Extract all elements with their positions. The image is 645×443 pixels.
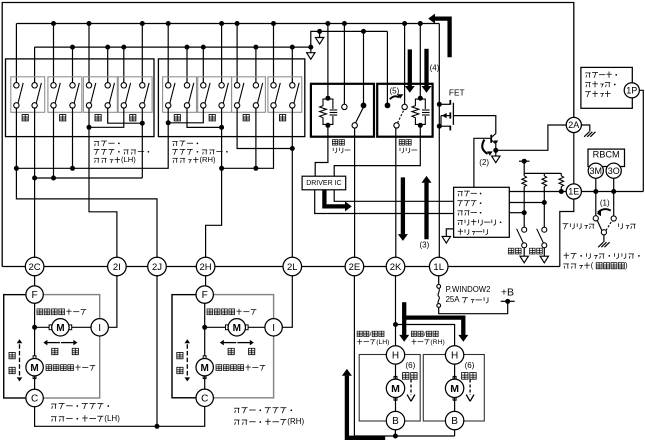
- wire: relay feed to relay1 NO contact: [363, 31, 365, 105]
- svg-text:(LH): (LH): [104, 414, 120, 423]
- svg-text:M: M: [233, 323, 241, 334]
- label: up-down adjust motor: [216, 365, 265, 371]
- svg-text:2K: 2K: [390, 262, 402, 273]
- svg-text:(4): (4): [430, 64, 440, 73]
- svg-text:2L: 2L: [287, 262, 298, 273]
- junction dots on bus2: [70, 45, 75, 50]
- wire: main feed loop from row left end up across top to 2A: [2, 3, 574, 267]
- connector 2H: [196, 257, 215, 276]
- dashed arrow: return direction: [410, 380, 412, 396]
- wires: bus1 drops to switch contacts: [15, 24, 17, 83]
- label: return relay: [399, 140, 411, 146]
- svg-text:C: C: [31, 394, 38, 405]
- power outer mirror motor (LH) box: [4, 295, 100, 398]
- motor M (left-right adjust): [49, 325, 52, 330]
- pull-up rail tick: [519, 160, 530, 162]
- wire: RH down-right contact to connector 2H: [206, 108, 222, 257]
- svg-text:(LH): (LH): [376, 339, 389, 346]
- connector H: [386, 346, 404, 364]
- connector C: [26, 389, 43, 406]
- connector 1P: [624, 83, 639, 98]
- wire: LH left-right contact jog to right-right: [108, 108, 143, 123]
- wire: motor box left path: [4, 295, 26, 398]
- return relay coil: [412, 99, 420, 124]
- label: retract relay: [332, 140, 344, 146]
- wire: 2H to F (RH): [205, 276, 207, 286]
- wire: LH up-left contact to line C to connector 2J: [16, 108, 157, 257]
- +B terminal: [501, 300, 515, 302]
- wire: line A right segment: [222, 108, 274, 168]
- svg-text:(3): (3): [420, 241, 430, 250]
- wire: DRIVER IC output to module (upper): [334, 190, 453, 202]
- label: left-right adjust motor: [207, 309, 256, 315]
- retract relay box: [311, 84, 374, 137]
- wire: connector row bus: [2, 266, 560, 268]
- wire: relay feed to relay2 NO contact: [386, 31, 388, 105]
- wire: LH down-right contact to line A: [72, 108, 74, 168]
- switch unit 上: [163, 77, 197, 113]
- svg-text:2H: 2H: [200, 262, 212, 273]
- resistor R1: [522, 176, 527, 187]
- svg-text:C: C: [201, 393, 208, 404]
- module branch marker lower left: [446, 229, 453, 237]
- label: up-down adjust motor: [46, 365, 95, 371]
- wire: LH down-left contact to line B: [53, 108, 55, 178]
- power outer mirror switch (RH) box: [158, 59, 304, 137]
- svg-text:(6): (6): [406, 361, 416, 370]
- svg-text:H: H: [392, 351, 399, 362]
- wire: DRIVER IC output to module (lower): [315, 190, 454, 214]
- label: up / down: [9, 352, 15, 358]
- wire: motor box left path: [172, 295, 196, 398]
- svg-text:B: B: [392, 416, 399, 427]
- ground (lock switch): [598, 242, 603, 247]
- svg-text:+B: +B: [501, 287, 514, 299]
- wire: rail to resistors: [523, 161, 525, 176]
- svg-text:1E: 1E: [568, 187, 579, 197]
- wire: F to junction to vertical motor: [204, 303, 206, 358]
- wire: junction to LR motor and I: [35, 326, 100, 328]
- curved arrow (2): [482, 140, 487, 154]
- wire: R2 to return switch: [543, 187, 545, 228]
- wire: relay2 armature to connector 2K: [395, 128, 397, 257]
- fuse P.WINDOW2 25A: [437, 285, 441, 289]
- wire: LH left-left contact to line D to connector 2I: [89, 108, 117, 257]
- wire: RH right-right contact down to connector 2L: [291, 108, 293, 257]
- svg-text:): ): [625, 261, 628, 270]
- connector 2L: [283, 257, 302, 276]
- arrows: up-down: [186, 344, 188, 376]
- wire: 1E to row right end: [560, 199, 574, 266]
- svg-text:(RH): (RH): [287, 417, 304, 426]
- thick arrow: retract current down (left): [408, 49, 412, 86]
- switch unit 右: [118, 77, 152, 113]
- svg-text:2J: 2J: [152, 262, 162, 273]
- svg-text:H: H: [451, 351, 458, 362]
- wire: transistor base from module: [474, 138, 491, 187]
- wire: bus 1 (upper supply bus): [16, 23, 439, 25]
- connector B: [386, 411, 404, 429]
- svg-text:(RH): (RH): [430, 339, 444, 346]
- connector 3M: [588, 163, 603, 178]
- wire: module output to 1E: [509, 191, 566, 193]
- return switch: [542, 227, 547, 232]
- connector 2A: [566, 117, 581, 132]
- retract relay coil: [320, 99, 328, 124]
- svg-text:2A: 2A: [568, 120, 579, 130]
- connector 2E: [345, 257, 364, 276]
- switch unit 左: [232, 77, 266, 113]
- curved arrow (5): [390, 96, 399, 99]
- wire: 2K down to retract motors: [395, 276, 397, 346]
- svg-text:(1): (1): [600, 198, 610, 207]
- wire: 2J down to motor return bus: [156, 276, 158, 427]
- node: bus2 end junction with branch marker: [308, 45, 313, 50]
- wire: 1E line to RBCM and 1P: [581, 191, 643, 193]
- thick arrow: bottom return flow up: [347, 376, 385, 438]
- thick arrow: up from row: [424, 183, 428, 240]
- label: retract/return motor (LH): [357, 331, 384, 338]
- RBCM box: [588, 149, 625, 166]
- thick arrow (3): down toward row: [401, 177, 405, 234]
- arrows: left-right: [222, 342, 236, 344]
- power outer mirror motor (RH) box: [172, 295, 274, 398]
- wire: bus 2 (second supply bus): [35, 46, 311, 48]
- label: power outer mirror motor (LH): [51, 404, 109, 410]
- start stop unit box: [581, 67, 632, 108]
- svg-text:B: B: [451, 416, 458, 427]
- svg-text:(RH): (RH): [200, 155, 216, 164]
- motor M (left-right adjust): [226, 325, 229, 330]
- svg-text:/: /: [424, 331, 426, 338]
- wire: bus1 to relay2 NC contact: [404, 24, 406, 105]
- node: relay feed line junction with branch marker: [317, 29, 322, 34]
- svg-text:M: M: [391, 383, 400, 395]
- svg-text:(: (: [591, 261, 594, 270]
- wire: relay2 coil to DRIVER IC: [334, 125, 420, 176]
- wire: 2L to I (RH): [282, 276, 292, 328]
- svg-text:RBCM: RBCM: [593, 149, 620, 159]
- connector F: [196, 286, 213, 303]
- connector B: [445, 411, 463, 429]
- arrows: up-down: [19, 344, 21, 376]
- label: power outer mirror motor (RH): [234, 408, 292, 414]
- connector 3O: [606, 163, 621, 178]
- wire: RH up-left branch to down-left contact: [168, 108, 203, 123]
- label: power outer mirror switch (RH): [172, 141, 198, 146]
- wire: lock switch to ground: [603, 235, 605, 242]
- return relay box: [377, 84, 432, 137]
- wire: junction to LR motor and I: [205, 326, 274, 328]
- FET transistor: [439, 103, 450, 105]
- wire: 2E down to motor B bus: [354, 276, 454, 436]
- svg-text:M: M: [201, 363, 209, 374]
- wire: 2C to F (LH): [34, 276, 36, 286]
- svg-text:I: I: [272, 323, 275, 334]
- svg-text:3M: 3M: [590, 166, 603, 176]
- label: up / down: [177, 352, 183, 358]
- resistor R3: [559, 176, 564, 187]
- wire: LH left-left branch to right-left contact: [89, 108, 124, 127]
- svg-text:FET: FET: [449, 88, 465, 98]
- svg-text:1L: 1L: [433, 262, 444, 273]
- connector C: [196, 389, 213, 406]
- svg-text:M: M: [30, 363, 38, 374]
- wire: RH up-right jog to down-right: [187, 108, 222, 127]
- connector F: [26, 286, 43, 303]
- svg-text:2I: 2I: [113, 262, 121, 273]
- retract/return motor (RH) box: [423, 355, 484, 422]
- wire: 2A to 1E: [573, 133, 575, 184]
- wire: UD motor to C: [34, 376, 36, 389]
- wire: R3 to 1E line: [560, 187, 562, 192]
- motor M (up-down adjust): [203, 356, 206, 359]
- wires: bus2 drops to switch contacts: [34, 47, 36, 83]
- connector I: [265, 319, 282, 336]
- wire: bus1 to relay2 coil: [419, 24, 421, 99]
- wire: branch to RH retract motor: [396, 325, 455, 346]
- switch unit 下: [48, 77, 82, 113]
- power outer mirror switch (LH) box: [6, 59, 155, 137]
- wire: relay1 coil to DRIVER IC: [315, 125, 328, 176]
- wire: 1L to fuse: [438, 276, 440, 285]
- wire: relay1 armature to connector 2E: [354, 128, 356, 257]
- wire: 2I to I (LH): [108, 276, 117, 328]
- switch unit 右: [268, 77, 302, 113]
- branch marker below transistor (2): [492, 156, 500, 163]
- svg-text:(6): (6): [465, 361, 475, 370]
- svg-text:P.WINDOW2: P.WINDOW2: [446, 285, 491, 294]
- power outer mirror control module box: [454, 187, 510, 237]
- wire: line A: [16, 108, 168, 168]
- wire: B(LH) to bus: [394, 430, 396, 436]
- wire: bus1 to relay1 coil: [327, 24, 329, 99]
- svg-text:2C: 2C: [29, 262, 41, 273]
- DRIVER IC box: [302, 176, 346, 190]
- thick arrow: feedback current path top right: [434, 19, 450, 58]
- retract switch: [522, 227, 527, 232]
- wire: module output (retract): [509, 212, 524, 214]
- label: retract/return motor (RH): [411, 331, 438, 338]
- svg-text:/: /: [370, 331, 372, 338]
- return relay contact (5): [398, 110, 405, 123]
- door lock link switch (1): [593, 216, 598, 221]
- transistor (2): [490, 135, 492, 143]
- wire: 1P to 1E line: [639, 90, 643, 191]
- arrows: left-right: [46, 342, 60, 344]
- wire: UD motor to C: [204, 376, 206, 389]
- svg-text:3O: 3O: [608, 166, 620, 176]
- motor M (retract): [453, 376, 456, 379]
- wire: transistor emitter to 2A: [496, 125, 566, 150]
- wire: line B: [35, 177, 143, 179]
- ground (2A): [584, 132, 589, 137]
- svg-text:1P: 1P: [626, 86, 637, 96]
- thick arrow: retract motor drive (LH+RH): [402, 302, 406, 335]
- wire: LH up-right contact down to connector 2C: [34, 108, 36, 257]
- svg-text:25A: 25A: [446, 295, 461, 304]
- wire: F to junction to vertical motor: [34, 303, 36, 358]
- switch unit labels: [22, 115, 28, 121]
- resistor R2: [542, 176, 547, 187]
- wire: module output (return): [509, 202, 544, 204]
- svg-text:(2): (2): [479, 158, 489, 167]
- svg-text:M: M: [450, 383, 459, 395]
- label: power outer mirror switch (LH): [94, 141, 120, 146]
- wire: R1 to retract switch: [523, 187, 525, 228]
- connector H: [445, 346, 463, 364]
- labels: retract / return: [508, 248, 521, 254]
- connector I: [91, 319, 108, 336]
- connector 2I: [108, 257, 127, 276]
- connector 2J: [148, 257, 167, 276]
- svg-text:2E: 2E: [349, 262, 361, 273]
- retract relay contact: [356, 108, 364, 123]
- svg-text:(5): (5): [390, 86, 400, 95]
- connector 1E: [566, 184, 581, 199]
- wire: RH left-left jog to 2L line: [237, 108, 292, 149]
- wire: B(RH) to bus: [454, 430, 456, 436]
- wire: RH left-right contact to line A: [255, 108, 257, 168]
- svg-text:DRIVER IC: DRIVER IC: [306, 180, 341, 187]
- wire: FET gate to transistor: [453, 116, 495, 134]
- junction dots on bus1: [51, 21, 56, 26]
- retract/return motor (LH) box: [359, 355, 420, 422]
- motor M (retract): [394, 376, 397, 379]
- wire: bus1 to relay1 NC contact: [343, 24, 345, 105]
- connector 2K: [386, 257, 405, 276]
- wire: bus1 end down through FET to connector 1L: [438, 24, 440, 258]
- thick arrow (4): return current down: [424, 49, 428, 86]
- svg-text:I: I: [98, 323, 101, 334]
- wire: 2A to ground: [581, 125, 589, 132]
- wire: fuse to +B: [439, 301, 508, 313]
- switch unit 左: [83, 77, 117, 113]
- dashed arrow: return direction: [469, 380, 471, 396]
- wire: LH right-right contact down to line B end: [141, 108, 143, 178]
- svg-text:F: F: [32, 290, 38, 301]
- motor M (up-down adjust): [33, 356, 36, 359]
- connector 2C: [25, 257, 44, 276]
- thick arrow: DRIVER IC signal flow: [324, 190, 345, 207]
- switch unit 下: [198, 77, 232, 113]
- svg-text:F: F: [202, 290, 208, 301]
- svg-text:M: M: [56, 323, 64, 334]
- wire: relay feed line from bus2 riser: [311, 31, 388, 47]
- wire: C(LH) to C(RH) bottom bus: [35, 407, 205, 427]
- label: left-right adjust motor: [37, 309, 86, 315]
- svg-text:(LH): (LH): [121, 155, 136, 164]
- switch unit 上: [11, 77, 45, 113]
- connector 1L: [429, 257, 448, 276]
